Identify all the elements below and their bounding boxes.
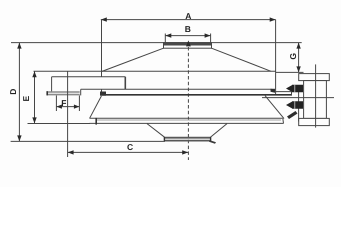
svg-text:A: A — [185, 11, 191, 21]
body left edge lower + weld blob — [100, 89, 106, 95]
dimension B extension lines — [164, 34, 166, 43]
G bottom extension line — [276, 71, 304, 73]
outlet step vertical — [80, 89, 82, 95]
dimension A left extension / body left edge upper — [101, 20, 103, 77]
outlet top extension line + body top line — [34, 70, 276, 72]
body corner wedge — [271, 89, 276, 93]
svg-text:G: G — [288, 53, 298, 60]
inlet flange with gasket hatch — [164, 43, 212, 49]
cone left slope — [102, 48, 164, 71]
svg-text:B: B — [185, 24, 191, 34]
svg-text:C: C — [127, 142, 133, 152]
flange top level extension line — [11, 42, 302, 44]
side motor body — [304, 81, 327, 119]
svg-text:F: F — [61, 98, 66, 108]
lower clamp wedge — [287, 111, 298, 119]
base ring band — [90, 118, 284, 125]
motor cone left slope — [147, 124, 165, 138]
dimension A line — [101, 17, 276, 21]
dimension E line — [32, 71, 36, 123]
F extension lines — [55, 96, 57, 112]
machine centerline with up arrow — [186, 40, 191, 160]
outlet duct inner end wall — [124, 77, 126, 90]
cone right slope — [212, 48, 272, 71]
motor mount plate edge — [298, 85, 300, 122]
outlet tube double wall band — [47, 91, 80, 95]
motor cone right slope — [210, 124, 227, 138]
svg-text:E: E — [21, 95, 31, 101]
dimension F line — [56, 105, 79, 109]
outlet axis / C left extension line — [67, 71, 69, 157]
body thick bottom line — [101, 94, 292, 96]
motor base band — [164, 137, 216, 144]
side motor bottom cap — [299, 118, 330, 125]
base flare left slope — [90, 96, 102, 118]
dimension A right extension / body right edge — [275, 20, 277, 96]
body mid line — [81, 88, 276, 90]
right shelf end vertical — [291, 92, 293, 95]
svg-text:D: D — [8, 89, 18, 95]
clamp bolt upper — [286, 85, 303, 93]
outlet duct top line — [52, 76, 126, 78]
outlet duct left edge — [51, 77, 53, 93]
dimension B line — [165, 33, 210, 37]
base flare right slope — [265, 96, 284, 119]
side motor axis line — [262, 97, 334, 99]
dimension D line — [17, 43, 21, 142]
side motor top cap — [299, 74, 330, 81]
right shelf line — [275, 91, 292, 93]
dimension C line — [68, 150, 189, 154]
dimension G line — [296, 43, 300, 73]
side motor vertical centerline — [315, 64, 317, 127]
clamp bolt lower — [286, 101, 303, 109]
E bottom extension line — [28, 123, 91, 125]
ground / D bottom extension line — [11, 140, 165, 142]
